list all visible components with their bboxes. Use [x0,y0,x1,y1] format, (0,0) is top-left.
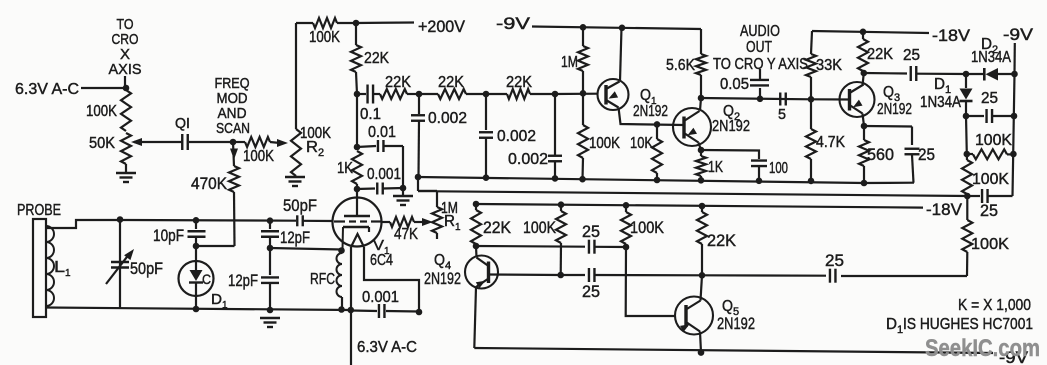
capacitor 12pF (lower) [228,248,279,310]
junction [757,96,764,103]
node -9V (top right) [1003,26,1033,74]
svg-text:2N192: 2N192 [717,315,755,333]
svg-text:1N34A: 1N34A [920,94,961,111]
pot R1 1M [418,177,461,239]
wire collector row [701,98,811,99]
svg-text:IS HUGHES HC7001: IS HUGHES HC7001 [903,316,1033,333]
ground (50K pot) [116,173,136,182]
svg-text:PROBE: PROBE [17,202,61,219]
capacitor 0.05 (audio out) [720,69,769,99]
probe body [17,202,61,317]
junction [698,147,705,154]
node -18V (middle) [476,201,962,219]
junction [557,272,564,279]
junction [354,186,361,193]
junction [963,71,970,78]
junction [1011,71,1018,78]
resistor 22K (Q3 collector) [858,32,893,73]
wire Q3 base [811,98,850,100]
svg-text:TO CRO Y AXIS: TO CRO Y AXIS [713,56,808,73]
resistor 100K (Q5 base bias) [621,205,664,247]
capacitor 25 (lower) [967,189,1012,220]
resistor 100K (X-axis upper) [86,90,131,131]
wire scan arrow down [230,142,238,166]
transistor Q3 2N192 [840,82,913,118]
junction [861,70,868,77]
junction [558,201,565,208]
resistor 1K (Q2 emitter) [696,150,723,180]
resistor 1K [337,151,362,189]
tube V1 6C4 [333,189,394,269]
junction [348,307,355,314]
junction [963,113,970,120]
wire [402,146,404,196]
svg-text:K = X 1,000: K = X 1,000 [958,297,1031,314]
svg-text:0.1: 0.1 [360,106,381,123]
transistor Q1 2N192 [598,79,669,120]
resistor 100K (detector mid) [962,154,1009,196]
junction [698,95,705,102]
svg-text:100: 100 [769,160,788,177]
svg-text:100K: 100K [589,135,620,152]
capacitor 25 (coupling A) [476,223,626,254]
wire probe top [46,220,120,228]
svg-text:5: 5 [778,106,786,123]
svg-text:25: 25 [582,223,600,241]
junction [416,309,423,316]
svg-text:100K: 100K [972,171,1009,188]
node: 6.3V A-C input [15,81,124,98]
node -9V (bottom right) [999,349,1028,365]
junction [354,91,361,98]
capacitor 0.001 (heater bypass) [351,289,419,318]
svg-text:22K: 22K [506,74,532,91]
wire Q4 base [489,273,561,276]
resistor 22K (Q4 collector) [471,204,511,246]
svg-text:+200V: +200V [418,17,466,36]
diode D1 1N34A [920,74,973,116]
junction [1010,151,1017,158]
wire grid row [120,219,296,222]
junction [699,272,706,279]
svg-text:12pF: 12pF [228,272,258,290]
resistor 4.7K [806,99,845,181]
junction [267,245,274,252]
watermark SeekIC.com [925,335,1040,362]
svg-text:SeekIC.com: SeekIC.com [925,335,1040,362]
junction [579,176,586,183]
svg-text:-18V: -18V [932,27,970,45]
resistor 5.6K [666,29,706,98]
wire heater right [364,247,419,312]
junction [861,180,868,187]
svg-text:22K: 22K [364,50,389,67]
svg-text:33K: 33K [816,57,842,74]
junction [964,151,971,158]
note K = X 1,000 [958,297,1031,314]
svg-text:100K: 100K [309,29,340,46]
svg-text:2N192: 2N192 [712,118,750,135]
svg-text:0.002: 0.002 [428,110,467,127]
junction [756,178,763,185]
junction [861,123,868,130]
capacitor 0.1 [357,85,381,124]
svg-text:C: C [202,272,211,287]
svg-text:1: 1 [65,268,71,279]
svg-text:RFC: RFC [310,271,335,288]
svg-text:25: 25 [918,146,935,164]
svg-text:6.3V A-C: 6.3V A-C [357,339,417,356]
svg-text:25: 25 [981,90,998,107]
svg-text:100K: 100K [523,219,556,237]
resistor 33K [806,31,842,99]
svg-text:100K: 100K [86,103,117,120]
wire Q5 collector [701,275,703,300]
svg-text:1M: 1M [561,54,578,71]
capacitor 12pF (upper) [261,221,310,248]
resistor 1M (Q1 bias) [561,27,588,93]
svg-text:50pF: 50pF [283,197,317,215]
junction [552,91,559,98]
svg-text:R: R [444,213,455,230]
junction [808,96,815,103]
junction [193,306,200,313]
svg-text:22K: 22K [867,46,893,63]
svg-text:D: D [211,291,222,308]
junction [698,349,705,356]
svg-text:5.6K: 5.6K [666,57,695,74]
capacitor 0.001 [357,166,403,195]
svg-text:100K: 100K [971,236,1009,253]
svg-text:100K: 100K [630,219,664,237]
capacitor 25 (Q3 emitter bypass) [864,126,935,183]
wire to cathode [270,248,342,250]
junction [580,90,587,97]
junction [267,217,274,224]
svg-text:0.05: 0.05 [720,76,749,93]
wire Q2 collector [700,98,701,111]
capacitor 25 (output to detector) [702,252,844,283]
junction [654,121,661,128]
svg-text:SCAN: SCAN [216,120,250,137]
inductor L1 [46,226,71,306]
junction [964,193,971,200]
node AUDIO OUT TO CRO Y AXIS [713,23,808,73]
junction [623,202,630,209]
junction [193,217,200,224]
svg-text:OUT: OUT [746,39,772,56]
svg-text:50pF: 50pF [130,260,163,278]
junction [400,185,407,192]
resistor 22K (ladder 3) [486,74,556,99]
svg-text:0.002: 0.002 [497,128,536,145]
junction [698,177,705,184]
junction [552,175,559,182]
wire Q1 collector [620,28,622,81]
svg-text:10K: 10K [630,135,653,152]
resistor 47K [382,217,434,243]
wire +200V rail [296,22,313,24]
capacitor 0.002 (ladder 1) [411,94,467,177]
resistor 100K (scan series) [233,137,288,165]
resistor 560 [859,126,894,183]
node: TO CRO X AXIS label [109,16,142,90]
potentiometer 50K [89,133,183,172]
ground (grid leak) [393,196,413,205]
svg-text:22K: 22K [483,219,511,237]
svg-text:-9V: -9V [496,15,530,33]
wire [965,116,968,154]
svg-text:L: L [54,259,65,276]
transistor Q5 2N192 [675,297,755,335]
svg-text:4.7K: 4.7K [816,134,845,151]
svg-text:50K: 50K [89,135,115,152]
svg-text:-9V: -9V [1003,26,1033,44]
resistor 10K [630,124,662,180]
svg-text:2N192: 2N192 [633,103,668,120]
svg-text:1: 1 [455,222,461,233]
capacitor 5 [778,93,786,124]
capacitor 25 (detector) [966,90,1014,123]
junction [860,29,867,36]
node 6.3V A-C (heater) [357,339,417,356]
wire row B (return to R1) [418,190,437,192]
junction [117,216,124,223]
resistor 22K (ladder 2) [419,74,486,99]
svg-text:100K: 100K [975,132,1012,149]
varactor diode D1 (HC7001) [179,246,229,311]
junction [416,91,423,98]
wire (Q1 base row) [555,93,598,96]
svg-text:25: 25 [903,47,920,64]
wire Q4 emitter [474,287,476,348]
junction [473,201,480,208]
svg-text:-18V: -18V [926,201,962,219]
junction [123,85,130,92]
svg-text:560: 560 [867,146,894,164]
svg-text:47K: 47K [394,226,418,243]
wire grid to tube [303,220,333,222]
junction [473,243,480,250]
svg-text:25: 25 [825,252,844,270]
capacitor 50pF (grid coupling) [283,197,317,226]
variable capacitor 50pF [106,220,163,308]
wire Q4 collector [475,246,478,258]
junction [415,174,422,181]
junction [338,247,345,254]
capacitor 0.01 [357,124,403,152]
capacitor 100 [751,160,788,181]
junction [619,25,626,32]
svg-text:22K: 22K [707,232,736,250]
svg-text:6.3V A-C: 6.3V A-C [15,81,79,98]
ground (12pF) [260,318,280,327]
wire [356,94,358,147]
capacitor QI [175,115,232,150]
node FREQ MOD AND SCAN label [215,75,251,137]
svg-text:R: R [306,139,318,156]
resistor 100K (Q1 base) [578,93,620,179]
wire emitter to cap 100 [701,150,759,159]
wire Q3 emitter [863,114,865,127]
junction [483,174,490,181]
wire right bus [1013,74,1015,196]
resistor 470K [191,166,239,246]
svg-text:0.002: 0.002 [508,151,548,168]
diode D2 1N34A [966,36,1015,81]
potentiometer R2 100K [291,23,331,176]
svg-text:1N34A: 1N34A [971,49,1011,66]
junction [654,177,661,184]
svg-text:Q: Q [883,84,894,101]
svg-text:10pF: 10pF [153,227,184,245]
capacitor 25 (Q3 output) [864,47,966,81]
junction [1011,113,1018,120]
resistor 22K (plate feed) [351,23,389,94]
capacitor 0.002 (ladder 3) [508,94,562,178]
svg-text:1K: 1K [337,160,353,177]
svg-text:D: D [886,316,897,333]
svg-text:2: 2 [318,147,324,159]
svg-text:AXIS: AXIS [109,61,142,78]
wire bottom rail [474,348,993,353]
resistor 100K (detector top) [967,132,1014,159]
resistor 22K (ladder 1) [380,74,419,99]
svg-text:0.001: 0.001 [367,166,401,183]
node -18V (top) [812,27,970,45]
wire Q5 base feed [626,247,675,316]
resistor 100K (feedback) [962,196,1009,276]
wire Q5 emitter [700,332,701,353]
wire rail A [418,177,914,183]
junction [699,203,706,210]
junction (scan node) [230,139,237,146]
svg-text:Q: Q [640,87,651,104]
note D1 is Hughes HC7001 [886,316,1033,336]
svg-text:470K: 470K [191,175,227,193]
transistor Q4 2N192 [424,252,498,289]
junction [483,91,490,98]
svg-text:22K: 22K [438,74,464,91]
junction [623,244,630,251]
capacitor 25 (coupling B) [561,268,702,301]
ground (R2) [285,177,305,186]
wire bottom rail left [46,308,351,311]
junction [580,24,587,31]
capacitor 0.002 (ladder 2) [479,94,536,178]
node -9V rail [496,15,701,33]
junction [808,178,815,185]
svg-text:22K: 22K [385,74,411,91]
svg-text:0.001: 0.001 [362,289,399,306]
wire to Q4 base row [841,275,967,277]
svg-text:Q: Q [722,298,733,315]
capacitor 10pF [153,220,206,246]
wire row B long [437,191,968,196]
svg-text:12pF: 12pF [280,229,310,247]
svg-text:AUDIO: AUDIO [740,23,780,40]
junction [353,20,360,27]
wire Q1 emitter to Q2 base [619,108,685,126]
transistor Q2 2N192 [673,103,750,146]
junction [267,307,274,314]
svg-text:0.01: 0.01 [368,124,396,141]
svg-text:25: 25 [980,202,998,220]
resistor 100K (to +200V) [309,18,355,46]
resistor 100K (Q4 base bias) [523,205,566,275]
junction [354,144,361,151]
svg-text:6C4: 6C4 [370,252,393,269]
wire Q2 emitter [699,143,702,151]
junction [338,306,345,313]
junction [193,243,200,250]
svg-text:1K: 1K [708,159,723,176]
wire heater left [350,247,352,365]
svg-text:Q: Q [434,252,445,269]
inductor RFC [310,253,342,309]
resistor 22K (Q5 collector) [697,206,736,275]
svg-text:D: D [934,76,945,93]
svg-text:2N192: 2N192 [424,270,461,288]
node +200V [356,17,466,36]
svg-text:2N192: 2N192 [877,101,912,118]
svg-text:QI: QI [175,115,190,132]
wire Q3 collector [863,73,864,86]
svg-text:25: 25 [582,283,600,301]
svg-text:100K: 100K [243,148,274,165]
